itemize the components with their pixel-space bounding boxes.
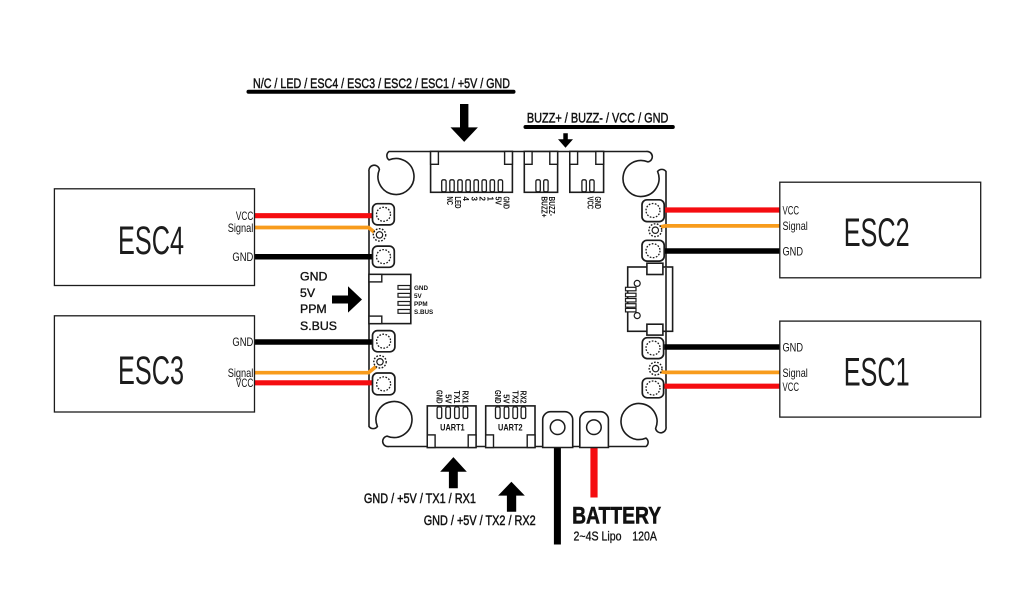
svg-text:RX2: RX2 bbox=[519, 391, 529, 404]
ESC4 box bbox=[54, 189, 254, 286]
svg-text:GND: GND bbox=[502, 197, 511, 210]
svg-text:5V: 5V bbox=[300, 286, 316, 300]
svg-text:Signal: Signal bbox=[783, 366, 808, 380]
wire orange Signal ESC2 bbox=[659, 226, 780, 227]
pad VCC right (ESC2) bbox=[642, 200, 664, 222]
pad Signal right (ESC1) bbox=[649, 362, 662, 375]
connector buzzer pin labels bbox=[539, 197, 556, 218]
svg-text:GND / +5V / TX2 / RX2: GND / +5V / TX2 / RX2 bbox=[424, 513, 536, 528]
wire red VCC ESC4 bbox=[255, 213, 375, 218]
svg-text:120A: 120A bbox=[632, 528, 657, 543]
svg-text:5V: 5V bbox=[414, 293, 423, 300]
wire black GND ESC1 bbox=[665, 344, 780, 350]
svg-text:VCC: VCC bbox=[783, 203, 800, 217]
wire black GND ESC4 bbox=[255, 254, 375, 260]
ESC1 box bbox=[780, 321, 981, 417]
svg-text:TX1: TX1 bbox=[452, 391, 462, 404]
wire black battery negative bbox=[554, 446, 561, 545]
pad Signal left (ESC3) bbox=[374, 356, 386, 368]
connector S.BUS pin labels bbox=[414, 285, 433, 316]
connector UART1 bottom bbox=[427, 406, 476, 448]
svg-text:VCC: VCC bbox=[783, 380, 800, 394]
svg-text:5V: 5V bbox=[502, 394, 512, 403]
connector vcc-gnd top bbox=[570, 152, 604, 193]
connector UART2 bottom bbox=[486, 406, 535, 448]
svg-text:PPM: PPM bbox=[414, 301, 428, 308]
wire black GND ESC2 bbox=[665, 248, 780, 254]
svg-text:1: 1 bbox=[485, 197, 494, 202]
arrow top pinout bbox=[451, 104, 478, 142]
svg-text:Signal: Signal bbox=[783, 219, 808, 233]
pad Signal left (ESC4) bbox=[373, 229, 385, 241]
svg-text:BUZZ-: BUZZ- bbox=[547, 197, 556, 217]
svg-text:BATTERY: BATTERY bbox=[572, 503, 661, 530]
connector J1 pin labels bbox=[445, 197, 511, 210]
svg-text:ESC2: ESC2 bbox=[844, 211, 910, 255]
svg-text:Signal: Signal bbox=[228, 221, 254, 235]
connector UART1 pin labels bbox=[435, 390, 471, 404]
svg-text:BUZZ+: BUZZ+ bbox=[539, 197, 548, 218]
svg-text:S.BUS: S.BUS bbox=[414, 309, 433, 316]
label receiver pinout bbox=[300, 269, 337, 333]
svg-text:5V: 5V bbox=[494, 197, 503, 206]
svg-text:GND: GND bbox=[232, 250, 253, 264]
svg-text:NC: NC bbox=[445, 197, 454, 206]
connector micro-USB right bbox=[626, 263, 673, 335]
connector J1 8-pin top bbox=[431, 152, 513, 193]
svg-text:UART1: UART1 bbox=[440, 423, 465, 434]
wire red VCC ESC3 bbox=[255, 380, 375, 385]
underline buzzer pinout bbox=[526, 125, 673, 129]
svg-text:ESC4: ESC4 bbox=[118, 219, 184, 263]
svg-text:GND: GND bbox=[783, 244, 804, 258]
flight controller board outline U1 bbox=[369, 151, 666, 446]
svg-text:LED: LED bbox=[453, 197, 462, 209]
svg-text:ESC3: ESC3 bbox=[118, 349, 184, 393]
ESC3 box bbox=[54, 316, 254, 412]
connector vcc-gnd pin labels bbox=[585, 197, 602, 210]
svg-text:GND: GND bbox=[232, 335, 253, 349]
arrow buzzer pinout bbox=[558, 133, 573, 148]
svg-text:GND: GND bbox=[493, 390, 503, 404]
pad GND left (ESC4) bbox=[373, 246, 395, 267]
svg-text:UART2: UART2 bbox=[498, 423, 523, 434]
wire red VCC ESC1 bbox=[665, 384, 780, 389]
svg-text:GND: GND bbox=[783, 340, 804, 354]
connector S.BUS left bbox=[369, 274, 411, 323]
svg-text:4: 4 bbox=[461, 197, 470, 202]
pad Signal right (ESC2) bbox=[649, 224, 662, 237]
arrow UART1 bbox=[440, 457, 467, 488]
svg-text:N/C / LED / ESC4 / ESC3 / ESC2: N/C / LED / ESC4 / ESC3 / ESC2 / ESC1 / … bbox=[253, 75, 510, 91]
svg-text:2: 2 bbox=[477, 197, 486, 202]
svg-text:S.BUS: S.BUS bbox=[300, 319, 337, 333]
wire orange Signal ESC4 bbox=[255, 228, 376, 234]
svg-text:ESC1: ESC1 bbox=[844, 350, 910, 394]
underline top pinout bbox=[249, 90, 514, 94]
svg-text:GND: GND bbox=[414, 285, 428, 292]
svg-text:GND / +5V / TX1 / RX1: GND / +5V / TX1 / RX1 bbox=[364, 491, 476, 506]
pad GND left (ESC3) bbox=[373, 331, 395, 352]
arrow receiver bbox=[332, 286, 362, 312]
connector J1 pins 1-8 bbox=[442, 180, 503, 192]
pad GND right (ESC1) bbox=[642, 338, 663, 359]
svg-text:GND: GND bbox=[300, 269, 327, 283]
pad VCC right (ESC1) bbox=[642, 378, 663, 398]
connector UART2 pin labels bbox=[493, 390, 529, 404]
battery pad positive bbox=[580, 412, 609, 448]
wire orange Signal ESC3 bbox=[255, 367, 377, 373]
svg-text:PPM: PPM bbox=[300, 302, 327, 316]
svg-text:BUZZ+ / BUZZ- / VCC / GND: BUZZ+ / BUZZ- / VCC / GND bbox=[527, 110, 669, 126]
svg-text:3: 3 bbox=[469, 197, 478, 202]
ESC2 box bbox=[780, 182, 981, 278]
wire orange Signal ESC1 bbox=[660, 370, 780, 374]
battery pad negative bbox=[543, 412, 573, 448]
svg-text:GND: GND bbox=[593, 197, 602, 210]
pad VCC left (ESC3) bbox=[373, 373, 395, 395]
svg-text:5V: 5V bbox=[443, 394, 453, 403]
wire black GND ESC3 bbox=[255, 339, 375, 345]
pad VCC left (ESC4) bbox=[373, 204, 395, 225]
pad GND right (ESC2) bbox=[642, 240, 664, 261]
wire red VCC ESC2 bbox=[665, 207, 780, 212]
wire red battery positive bbox=[590, 446, 597, 498]
svg-text:2~4S Lipo: 2~4S Lipo bbox=[574, 528, 622, 543]
svg-text:RX1: RX1 bbox=[461, 391, 471, 404]
arrow UART2 bbox=[498, 482, 525, 512]
svg-text:VCC: VCC bbox=[585, 197, 594, 210]
svg-text:VCC: VCC bbox=[236, 376, 254, 390]
svg-text:GND: GND bbox=[435, 390, 445, 404]
connector buzzer top bbox=[524, 152, 557, 193]
